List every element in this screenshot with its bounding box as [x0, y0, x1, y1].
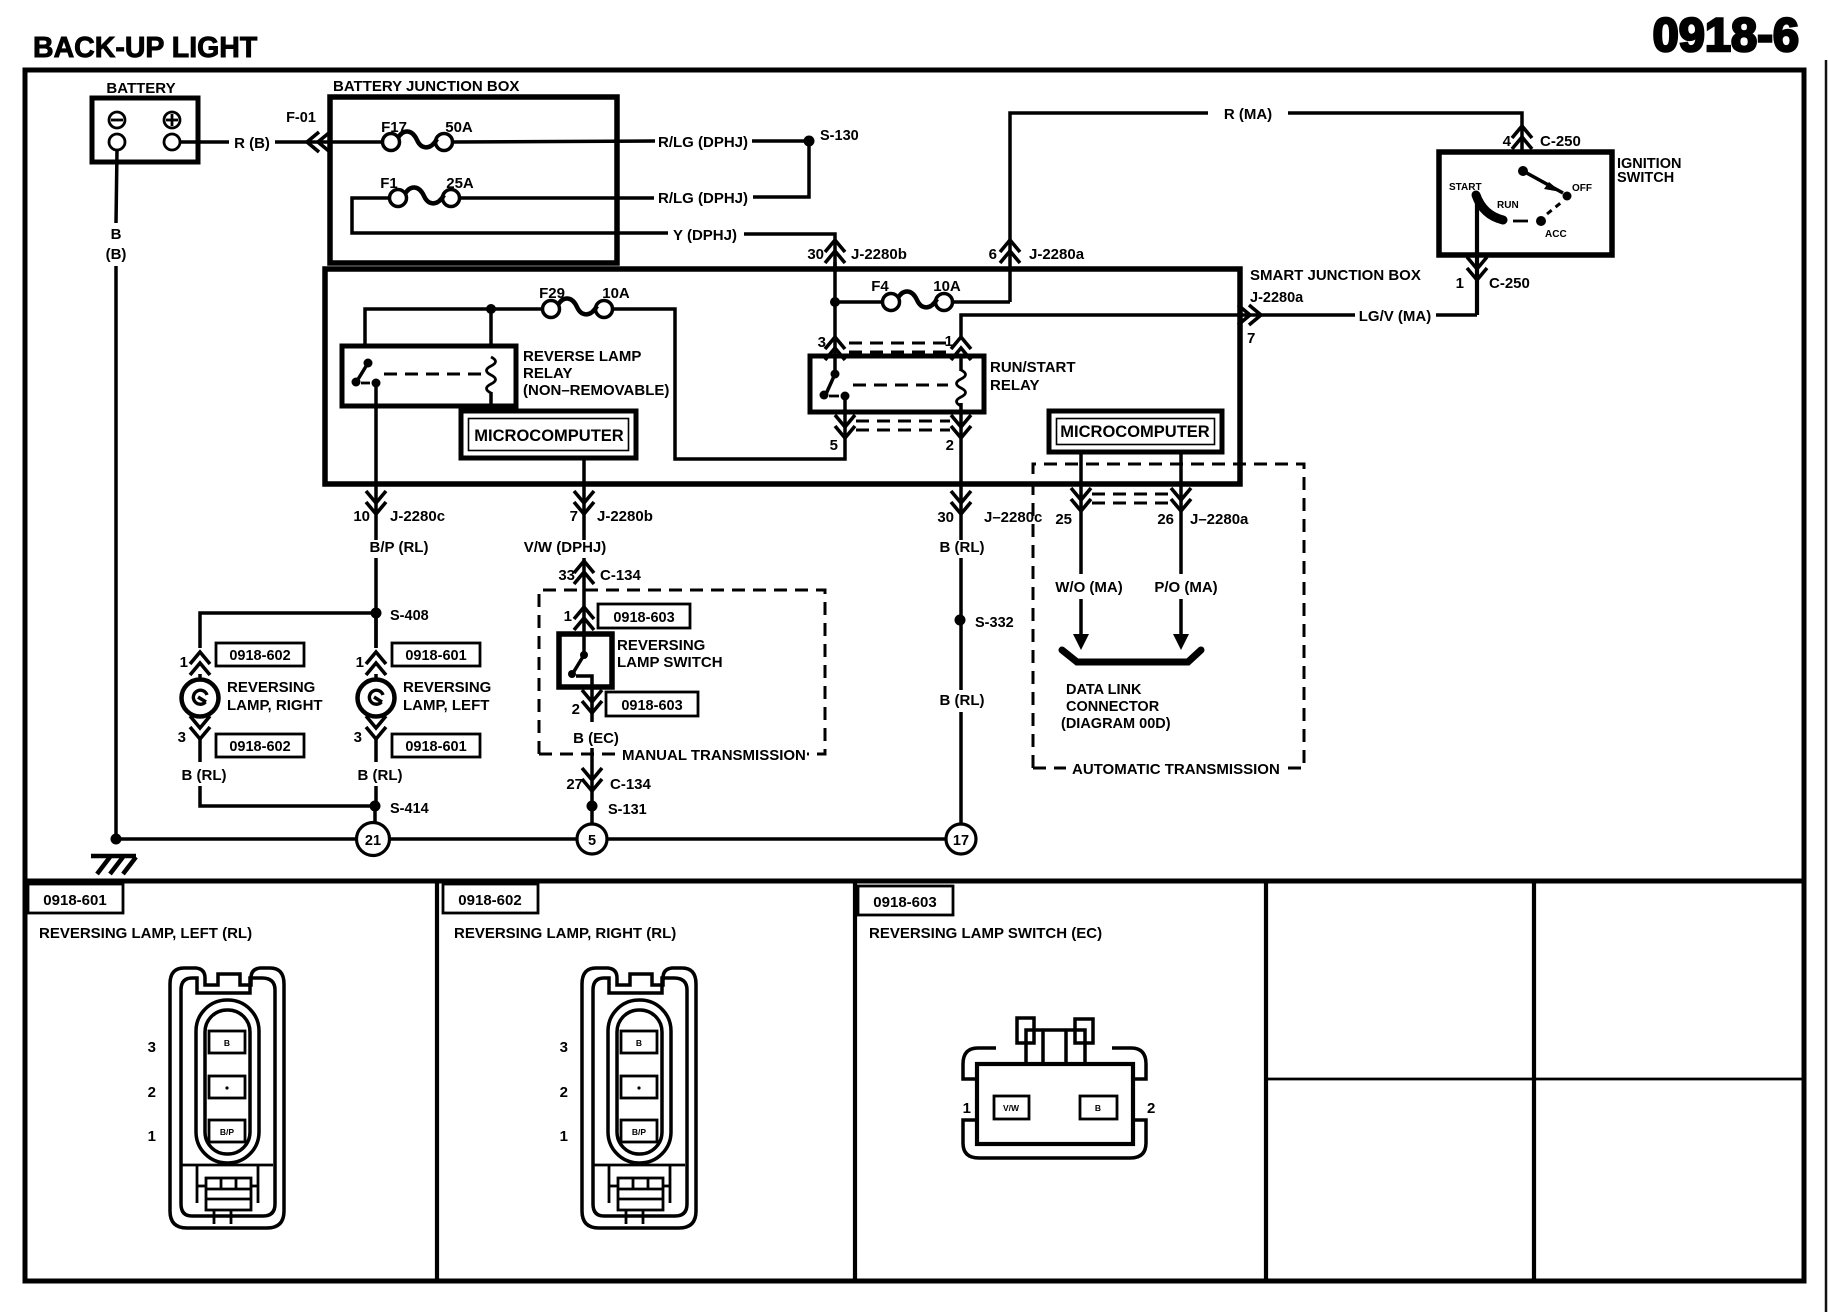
relay2 lever bottom dot [820, 391, 829, 400]
connector J-2280a pin 7 chevrons [1238, 305, 1261, 325]
svg-text:MANUAL TRANSMISSION: MANUAL TRANSMISSION [622, 747, 806, 764]
wire left lamp to S-414 [374, 786, 378, 806]
wire R/LG to S-130 [752, 139, 809, 143]
microcomputer 1 box [461, 411, 636, 458]
ACC contact dot [1536, 216, 1546, 226]
wire S-414 to ground 21 [373, 806, 377, 823]
wire pin 6 up to R (MA) [1010, 113, 1208, 302]
connector view reversing lamp left [148, 968, 284, 1228]
wire V/W down to C-134 [582, 558, 586, 590]
pin 3 cavity B [209, 1031, 245, 1053]
svg-text:R (MA): R (MA) [1224, 106, 1272, 123]
OFF contact dot [1563, 192, 1572, 201]
run/start relay pin 1 chevrons [951, 337, 971, 360]
connector box 0918-602 lower [216, 734, 304, 757]
fuse F29 10A [543, 298, 613, 317]
connector F-01 chevrons [307, 132, 330, 152]
svg-text:AUTOMATIC TRANSMISSION: AUTOMATIC TRANSMISSION [1072, 761, 1280, 778]
connector J-2280a pin 6 chevrons [1000, 240, 1020, 263]
ground circle 21 [357, 823, 390, 856]
svg-text:0918-603: 0918-603 [873, 894, 936, 911]
svg-text:7: 7 [570, 508, 578, 525]
svg-text:MICROCOMPUTER: MICROCOMPUTER [474, 427, 623, 445]
svg-text:0918-602: 0918-602 [229, 648, 290, 664]
splice S-131 [587, 801, 598, 812]
run/start relay pin 2 chevrons [951, 415, 971, 438]
wire relay pin1 to LG/V exit [961, 315, 1355, 338]
wire relay output down to SJB edge [374, 383, 378, 540]
wire microcomputer 2 output 25 [1079, 452, 1083, 574]
panel 1 id box 0918-601 [28, 884, 123, 913]
svg-text:50A: 50A [445, 119, 473, 136]
svg-text:27: 27 [566, 776, 583, 793]
svg-text:B (EC): B (EC) [573, 730, 619, 747]
reversing lamp switch box [559, 634, 612, 687]
wire relay2 output pin5 [843, 396, 847, 438]
wire B/P down to S-408 [374, 558, 378, 648]
svg-text:C-134: C-134 [600, 567, 642, 584]
reversing lamp switch label [617, 637, 723, 671]
svg-text:REVERSE LAMP: REVERSE LAMP [523, 348, 641, 365]
panel divider 2 [853, 881, 857, 1281]
ground bus junction dot [111, 834, 122, 845]
relay2 switch lever [826, 374, 835, 394]
connector box 0918-601 upper [392, 643, 480, 666]
svg-text:1: 1 [356, 654, 364, 671]
connector view reversing lamp right [560, 968, 696, 1228]
reverse lamp relay box [342, 346, 516, 406]
svg-text:BACK-UP LIGHT: BACK-UP LIGHT [33, 32, 258, 64]
connector C-250 pin 4 chevrons [1512, 126, 1532, 149]
svg-text:26: 26 [1157, 511, 1174, 528]
svg-text:LG/V (MA): LG/V (MA) [1359, 308, 1432, 325]
svg-text:F1: F1 [380, 175, 398, 192]
svg-text:RELAY: RELAY [990, 377, 1039, 394]
wire B (RL) down to S-332 [959, 558, 963, 690]
panel divider 1 [435, 881, 439, 1281]
microcomputer 2 box [1049, 411, 1222, 452]
left lamp pin 1 chevrons [366, 652, 386, 675]
connector box 0918-601 lower [392, 734, 480, 757]
connector outer shell [170, 968, 284, 1228]
wire microcomputer 2 output 26 [1179, 452, 1183, 574]
wire S-408 down to left lamp [374, 613, 378, 648]
fuse F4 junction dot [830, 297, 840, 307]
connector cavity outer [196, 1000, 259, 1163]
svg-text:REVERSING: REVERSING [227, 679, 315, 696]
svg-text:0918-601: 0918-601 [405, 739, 466, 755]
battery positive terminal [164, 112, 180, 128]
svg-text:S-130: S-130 [820, 128, 859, 144]
svg-text:BATTERY JUNCTION BOX: BATTERY JUNCTION BOX [333, 78, 519, 95]
wire ignition pin1 to LG/V (MA) [1436, 313, 1477, 317]
reversing lamp left bulb [358, 674, 395, 717]
pin 2 cavity B [1080, 1096, 1117, 1119]
wire battery negative down (B) [116, 150, 117, 223]
wire B (RL) to ground 17 [959, 712, 963, 824]
svg-text:REVERSING: REVERSING [403, 679, 491, 696]
svg-text:F17: F17 [381, 119, 407, 136]
connector box 0918-603 lower [606, 692, 698, 716]
svg-text:P/O (MA): P/O (MA) [1154, 579, 1217, 596]
switch lever [573, 655, 584, 673]
splice S-408 [371, 608, 382, 619]
top center block [1026, 1030, 1085, 1064]
reversing lamp right label [227, 679, 323, 714]
svg-text:MICROCOMPUTER: MICROCOMPUTER [1060, 423, 1209, 441]
svg-text:S-414: S-414 [390, 801, 429, 817]
svg-text:S-131: S-131 [608, 802, 647, 818]
ground circle 17 [946, 824, 976, 854]
svg-text:J–2280a: J–2280a [1190, 511, 1249, 528]
svg-text:(DIAGRAM 00D): (DIAGRAM 00D) [1061, 716, 1171, 732]
switch output elbow [576, 676, 592, 687]
pin 25 chevrons [1071, 488, 1091, 511]
svg-text:6: 6 [989, 246, 997, 263]
wire START down through box [1475, 197, 1479, 315]
switch input dot [580, 651, 588, 659]
connector cavity inner [205, 1010, 250, 1154]
wire R/LG second to fuse F1 [461, 196, 654, 200]
wire F29 feed row [365, 309, 542, 346]
svg-text:B (RL): B (RL) [358, 767, 403, 784]
svg-text:21: 21 [365, 833, 381, 849]
wire fuse F4 to R(MA) riser [953, 300, 1010, 304]
relay switch lever [357, 363, 368, 381]
svg-text:B: B [111, 226, 122, 243]
top tab right [1075, 1019, 1093, 1043]
wire left lamp down [374, 739, 378, 762]
right grid horizontal divider [1266, 1078, 1804, 1081]
pin 2 cavity [209, 1076, 245, 1098]
relay output dot [372, 379, 381, 388]
svg-text:LAMP SWITCH: LAMP SWITCH [617, 654, 723, 671]
wire R (MA) to ignition switch [1288, 113, 1522, 152]
junction dot F29 row [486, 304, 496, 314]
ground bus wire left [116, 837, 357, 841]
svg-text:2: 2 [148, 1084, 156, 1101]
connector C-134 pin 33 chevrons [574, 561, 594, 584]
right lamp pin 1 chevrons [190, 652, 210, 675]
ground bus wire mid [389, 837, 578, 841]
wire S-131 to ground 5 [590, 806, 594, 824]
battery negative post [109, 134, 125, 150]
relay contact dash [361, 382, 370, 385]
relay2 switch input dot [831, 370, 840, 379]
battery negative terminal [109, 112, 125, 128]
block divider right [1064, 1030, 1068, 1064]
svg-text:REVERSING LAMP SWITCH (EC): REVERSING LAMP SWITCH (EC) [869, 925, 1102, 942]
pin 26 chevrons [1171, 488, 1191, 511]
svg-text:25: 25 [1055, 511, 1072, 528]
svg-text:V/W (DPHJ): V/W (DPHJ) [524, 539, 607, 556]
relay mechanical dashed link [384, 373, 482, 376]
svg-text:RUN: RUN [1497, 200, 1519, 211]
svg-text:S-408: S-408 [390, 608, 429, 624]
ground bus wire right [607, 837, 947, 841]
svg-text:B: B [224, 1038, 230, 1048]
run/start relay pin 3 chevrons [825, 337, 845, 360]
pins 25/26 dashed rows [1092, 494, 1170, 503]
dashed ACC to OFF [1547, 201, 1563, 214]
wire F17 to R/LG (DPHJ) [453, 141, 655, 142]
ignition switch box [1439, 152, 1612, 255]
separator between schematic and connector panels [25, 879, 1804, 884]
splice S-414 [370, 801, 381, 812]
connector J-2280b pin 30 chevrons [825, 240, 845, 263]
battery box [92, 98, 198, 162]
svg-text:RELAY: RELAY [523, 365, 572, 382]
wire battery positive to R (B) [180, 140, 229, 144]
connector C-134 pin 27 chevrons [582, 768, 602, 791]
svg-text:1: 1 [148, 1128, 156, 1145]
fuse F1 25A [390, 187, 460, 206]
manual transmission dashed box [539, 590, 825, 754]
svg-text:0918-603: 0918-603 [613, 610, 674, 626]
reversing lamp right bulb [182, 674, 219, 717]
ignition input node [1518, 166, 1528, 176]
svg-text:33: 33 [558, 567, 575, 584]
svg-text:SWITCH: SWITCH [1617, 170, 1674, 186]
svg-text:Y (DPHJ): Y (DPHJ) [673, 227, 737, 244]
dash RUN to ACC [1513, 220, 1528, 223]
connector C-250 pin 1 chevrons [1467, 257, 1487, 280]
arrow W/O to data link [1073, 599, 1089, 650]
svg-text:2: 2 [946, 437, 954, 454]
svg-text:LAMP, LEFT: LAMP, LEFT [403, 697, 489, 714]
run/start relay box [810, 356, 984, 412]
pin 1 cavity B/P [209, 1120, 245, 1142]
relay connector top dashed rows [849, 343, 947, 352]
smart junction box [325, 269, 1240, 484]
svg-text:BATTERY: BATTERY [106, 80, 175, 97]
ignition lever to OFF [1523, 171, 1563, 193]
svg-text:R/LG (DPHJ): R/LG (DPHJ) [658, 190, 748, 207]
svg-text:J-2280a: J-2280a [1250, 290, 1304, 306]
svg-text:REVERSING LAMP, RIGHT (RL): REVERSING LAMP, RIGHT (RL) [454, 925, 676, 942]
data link connector bracket [1062, 650, 1201, 662]
wire relay2 coil pin2 [959, 403, 963, 540]
svg-text:5: 5 [588, 833, 596, 849]
svg-text:S-332: S-332 [975, 615, 1014, 631]
svg-text:B: B [1095, 1103, 1101, 1113]
connector inner shell [181, 978, 275, 1216]
svg-text:(B): (B) [106, 246, 127, 263]
svg-text:0918-603: 0918-603 [621, 698, 682, 714]
wire to fuse F17 [332, 140, 382, 144]
relay2 contact dash [829, 395, 839, 398]
connector box 0918-603 upper [598, 604, 690, 628]
wire Y(DPHJ) down to relay pin 3 [833, 262, 837, 374]
wire B (EC) down through box edge [590, 748, 594, 801]
svg-text:REVERSING LAMP, LEFT (RL): REVERSING LAMP, LEFT (RL) [39, 925, 252, 942]
relay2 output dot [841, 392, 850, 401]
wire right lamp down [198, 739, 202, 762]
svg-text:F29: F29 [539, 285, 565, 302]
svg-text:3: 3 [148, 1039, 156, 1056]
page scan edge artifact right [1825, 60, 1828, 1312]
right lamp pin 3 chevrons [190, 716, 210, 739]
svg-text:2: 2 [572, 701, 580, 718]
relay2 mechanical dashed link [853, 384, 948, 387]
svg-text:B (RL): B (RL) [940, 539, 985, 556]
svg-text:B/P (RL): B/P (RL) [370, 539, 429, 556]
svg-text:R (B): R (B) [234, 135, 270, 152]
panel divider 4 [1532, 881, 1536, 1281]
svg-text:10A: 10A [602, 285, 630, 302]
svg-text:SMART JUNCTION BOX: SMART JUNCTION BOX [1250, 267, 1421, 284]
svg-text:ACC: ACC [1545, 229, 1567, 240]
svg-text:7: 7 [1247, 330, 1255, 347]
svg-text:CONNECTOR: CONNECTOR [1066, 699, 1160, 715]
relay connector bottom dashed rows [856, 421, 950, 430]
switch connector body [977, 1064, 1133, 1144]
data link connector label [1061, 682, 1171, 732]
switch pin 1 chevrons [574, 607, 594, 630]
wire junction down to relay coil [489, 309, 493, 346]
svg-text:V/W: V/W [1003, 1103, 1020, 1113]
wire S-130 down [753, 141, 809, 197]
fuse F17 50A [383, 131, 453, 150]
svg-text:J-2280a: J-2280a [1029, 246, 1085, 263]
block divider left [1041, 1030, 1045, 1064]
top tab left [1017, 1018, 1034, 1043]
svg-text:4: 4 [1503, 133, 1512, 150]
svg-text:1: 1 [180, 654, 188, 671]
svg-text:W/O (MA): W/O (MA) [1055, 579, 1122, 596]
svg-text:B/P: B/P [220, 1127, 235, 1137]
wire relay coil to microcomputer [489, 392, 493, 413]
pin 30 chevrons bottom [951, 491, 971, 514]
svg-text:2: 2 [1147, 1100, 1155, 1117]
svg-text:R/LG (DPHJ): R/LG (DPHJ) [658, 134, 748, 151]
relay2 coil [957, 370, 966, 406]
svg-text:DATA LINK: DATA LINK [1066, 682, 1142, 698]
svg-text:3: 3 [818, 334, 826, 351]
svg-text:3: 3 [354, 729, 362, 746]
START crescent wiper [1476, 195, 1503, 220]
relay switch input dot [364, 359, 373, 368]
pin 10 chevrons [366, 491, 386, 514]
pin 1 cavity V/W [994, 1096, 1029, 1119]
run/start relay pin 5 chevrons [835, 415, 855, 438]
svg-text:1: 1 [963, 1100, 971, 1117]
battery positive post [164, 134, 180, 150]
wire relay2 coil stub top [959, 358, 963, 371]
svg-text:17: 17 [953, 833, 969, 849]
svg-text:0918-602: 0918-602 [458, 892, 521, 909]
svg-text:F-01: F-01 [286, 110, 316, 126]
svg-text:0918-602: 0918-602 [229, 739, 290, 755]
svg-text:OFF: OFF [1572, 183, 1592, 194]
ignition lever arrowhead [1544, 182, 1561, 192]
svg-text:0918-601: 0918-601 [43, 892, 106, 909]
wire F29 to run/start relay pin 5 [613, 309, 845, 459]
reversing lamp left label [403, 679, 491, 714]
svg-text:C-250: C-250 [1489, 275, 1530, 292]
wire Y (DPHJ) to smart junction box pin 30 [744, 234, 835, 270]
svg-text:1: 1 [1456, 275, 1464, 292]
svg-text:30: 30 [807, 246, 824, 263]
shell bottom U [963, 1120, 1146, 1158]
svg-text:10A: 10A [933, 278, 961, 295]
svg-text:3: 3 [178, 729, 186, 746]
connector lower chamber [181, 1165, 273, 1224]
relay lever bottom dot [352, 378, 361, 387]
svg-text:0918-6: 0918-6 [1653, 8, 1799, 61]
wire R (B) to battery junction box [275, 140, 332, 144]
wire switch pin 2 down [590, 687, 594, 722]
pin 7 chevrons [574, 491, 594, 514]
battery junction box [330, 97, 617, 263]
svg-text:J-2280b: J-2280b [597, 508, 653, 525]
panel 3 id box 0918-603 [858, 886, 953, 915]
svg-text:B (RL): B (RL) [182, 767, 227, 784]
svg-text:30: 30 [937, 509, 954, 526]
shell ear top-left [963, 1048, 996, 1079]
wire to fuse F4 [835, 300, 882, 304]
svg-text:0918-601: 0918-601 [405, 648, 466, 664]
ground circle 5 [577, 824, 607, 854]
svg-text:RUN/START: RUN/START [990, 359, 1076, 376]
wire B down to ground bus [114, 266, 118, 839]
splice S-130 [804, 136, 815, 147]
left lamp pin 3 chevrons [366, 716, 386, 739]
wire into reversing lamp switch [582, 590, 586, 654]
svg-text:5: 5 [830, 437, 838, 454]
svg-text:B (RL): B (RL) [940, 692, 985, 709]
svg-text:(NON–REMOVABLE): (NON–REMOVABLE) [523, 382, 669, 399]
svg-text:J-2280c: J-2280c [390, 508, 445, 525]
wire microcomputer 1 output [582, 458, 586, 540]
switch pin 2 chevrons [582, 690, 602, 713]
connector view reversing lamp switch [963, 1018, 1156, 1158]
wire S-408 to right lamp [200, 613, 376, 648]
svg-text:F4: F4 [871, 278, 889, 295]
fuse F4 10A [883, 291, 953, 310]
automatic transmission dashed box [1033, 464, 1304, 768]
wire right lamp to S-414 [200, 786, 375, 806]
svg-text:25A: 25A [446, 175, 474, 192]
panel divider 3 [1264, 881, 1268, 1281]
chassis ground symbol [91, 856, 136, 874]
wire fuse F1 left leg to Y (DPHJ) [352, 198, 668, 233]
svg-text:REVERSING: REVERSING [617, 637, 705, 654]
svg-text:C-250: C-250 [1540, 133, 1581, 150]
arrow P/O to data link [1173, 599, 1189, 650]
switch lever bottom dot [568, 670, 576, 678]
panel 2 id box 0918-602 [443, 884, 538, 913]
svg-text:10: 10 [353, 508, 370, 525]
svg-text:LAMP, RIGHT: LAMP, RIGHT [227, 697, 323, 714]
svg-text:C-134: C-134 [610, 776, 652, 793]
svg-text:J-2280b: J-2280b [851, 246, 907, 263]
splice S-332 [955, 615, 966, 626]
shell ear top-right [1112, 1048, 1146, 1079]
connector box 0918-602 upper [216, 643, 304, 666]
svg-text:1: 1 [564, 608, 572, 625]
relay coil [487, 357, 496, 393]
